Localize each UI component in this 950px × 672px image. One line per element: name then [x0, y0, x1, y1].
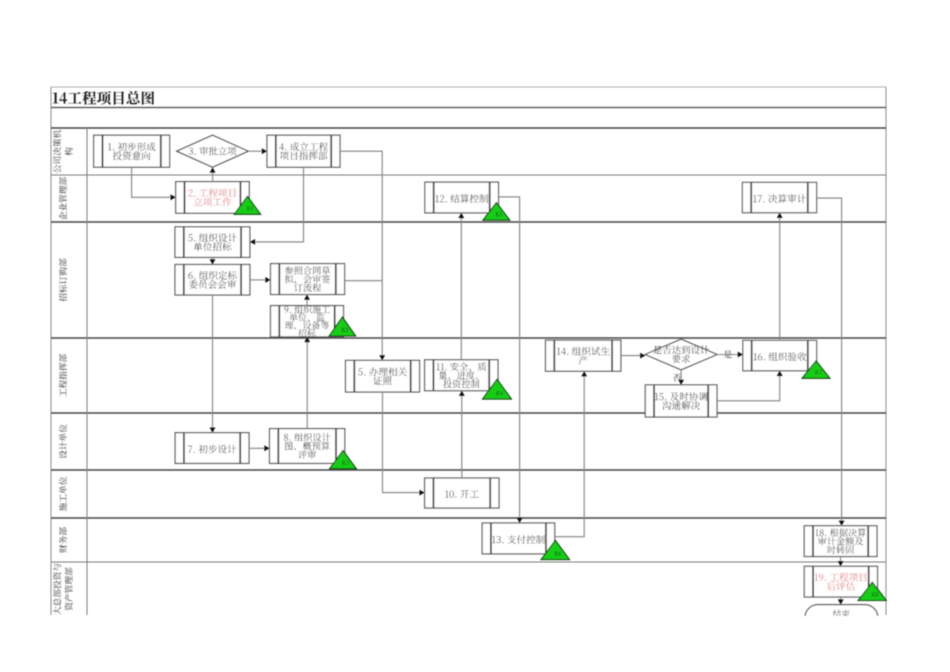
box 9 组织施工单位监理设备等招标	[271, 305, 344, 337]
wire 7→8	[249, 445, 270, 451]
control point K1 at box 2	[234, 196, 260, 214]
control point K7 at box 16	[802, 361, 830, 379]
label 是	[724, 350, 732, 358]
lane boundary y=562	[51, 561, 886, 563]
decision 是否达到设计要求	[645, 339, 717, 370]
bottom clip (white)	[0, 616, 950, 672]
box 14 组织试生产	[546, 340, 621, 371]
wire 12→13	[499, 197, 523, 523]
wire 10→11	[459, 391, 465, 478]
box 8 组织设计图概预算评审	[270, 429, 345, 464]
wire 参照→junction	[345, 280, 383, 282]
box 12 结算控制	[425, 182, 499, 213]
wire 判断→16 是	[717, 352, 743, 358]
control point K4 at box 11	[483, 379, 512, 399]
box 17 决算审计	[742, 182, 816, 212]
lane label column separator	[86, 128, 88, 615]
wire 19→结束	[838, 597, 844, 605]
wire 18→19	[838, 557, 844, 567]
lane label 大总部投资与资产管理部	[53, 564, 73, 615]
label 否	[673, 374, 681, 382]
lane boundary y=413	[51, 412, 886, 414]
box 16 组织验收	[743, 340, 817, 370]
box 参照合同草拟会审签订流程	[271, 264, 345, 295]
wire 14→判断	[621, 353, 645, 359]
lane boundary y=338	[51, 337, 886, 339]
lane label 设计单位	[59, 424, 67, 458]
box 4 成立工程项目指挥部	[267, 135, 340, 167]
box 1 初步形成投资意向	[94, 135, 170, 167]
wire 15→16	[717, 371, 783, 401]
wire 6→7	[210, 295, 216, 433]
control point K5 at box 12	[483, 203, 510, 221]
wire 判断→15 否	[678, 370, 684, 385]
control point K3 at box 8	[330, 451, 357, 469]
wire 2→3	[210, 167, 216, 181]
control point K2 at box 9	[329, 317, 356, 336]
box 2 工程项目立项工作	[176, 182, 250, 214]
wire 3→4	[248, 148, 267, 154]
lane boundary y=128	[51, 127, 886, 129]
wire 9→参照	[304, 295, 310, 306]
control point K6 at box 13	[541, 540, 569, 559]
box 6 组织定标委员会会审	[175, 265, 250, 296]
box 18 根据决算审计金额及时转固	[804, 526, 877, 557]
lane label 公司决策机构	[53, 130, 73, 173]
wire 6→参照	[250, 277, 271, 283]
lane boundary y=518	[51, 517, 886, 519]
lane boundary y=470	[51, 469, 886, 471]
control point K8 at box 19	[858, 582, 886, 600]
wire 16→17	[777, 213, 783, 341]
lane label 财务部	[59, 527, 67, 553]
wire 4→5	[250, 168, 304, 245]
lane boundary y=222	[51, 221, 886, 223]
box 5 办理相关证照	[346, 360, 420, 392]
box 15 及时协调沟通解决	[645, 385, 717, 417]
lane label 施工单位	[59, 477, 67, 511]
lane boundary y=175	[51, 174, 886, 176]
title row bottom border	[51, 107, 886, 109]
box 5 组织设计单位招标	[175, 227, 250, 258]
lane label 企业管理部	[59, 177, 67, 220]
box 7 初步设计	[175, 433, 249, 464]
box 13 支付控制	[482, 523, 555, 554]
title 14工程项目总图	[53, 91, 154, 105]
wire 17→18	[817, 198, 845, 526]
wire 4→办理证照	[340, 151, 385, 360]
lane label 工程指挥部	[59, 354, 67, 397]
terminator 结束	[805, 605, 878, 635]
decision 3 审批立项	[177, 135, 248, 167]
wire 11→12	[458, 213, 464, 360]
lane label 招标订购部	[59, 259, 67, 302]
wire 5→6	[210, 257, 216, 264]
frame outer borders	[51, 87, 886, 615]
wire 8→9	[304, 337, 310, 429]
wire 13→14	[555, 371, 587, 537]
box 10 开工	[425, 478, 499, 508]
wire 1→2	[132, 168, 176, 200]
box 19 工程项目后评估	[804, 566, 877, 597]
wire 办理证照→10	[383, 392, 425, 496]
box 11 安全质量进度投资控制	[425, 360, 498, 391]
